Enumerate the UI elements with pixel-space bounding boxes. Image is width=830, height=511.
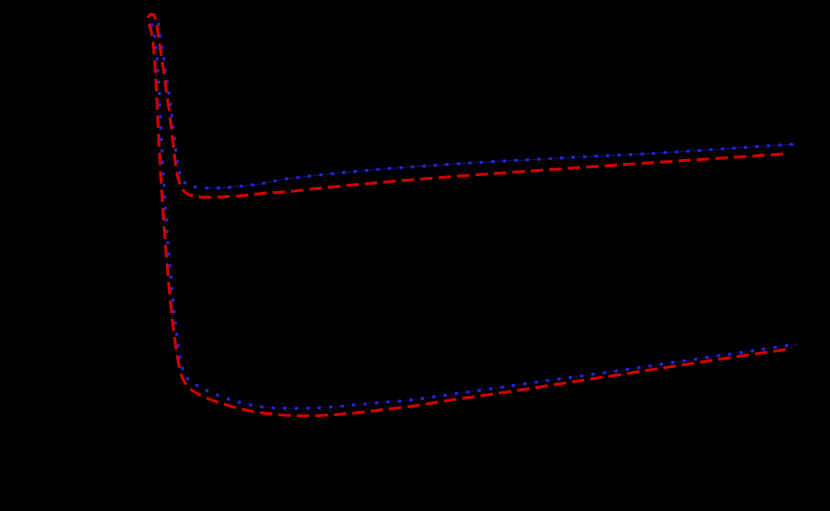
blue dotted curve upper-branch thin underlay (204, 144, 797, 188)
blue dotted curve lower-branch thin underlay (233, 344, 797, 408)
blue dotted curve (dots) (151, 15, 797, 408)
red dashed curve (148, 14, 792, 416)
